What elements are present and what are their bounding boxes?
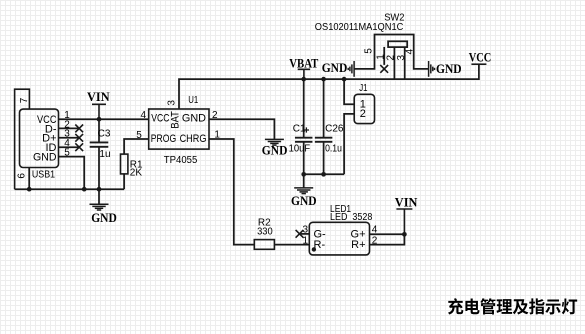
ground symbol below C1: [294, 188, 313, 194]
wire USB pin3 stub: [59, 137, 80, 139]
no-connect X on USB pin 4: [75, 143, 83, 151]
USB1 pin numbers 1-5: [64, 110, 70, 159]
power port VIN (right): [396, 209, 412, 234]
LED1 pin-1 marker dot: [312, 247, 316, 251]
ground symbol at U1 pin2: [265, 139, 284, 145]
svg-text:330: 330: [257, 227, 273, 238]
capacitor C3 1u: [98, 119, 100, 142]
ground symbol left of SW2 (pin 5 lug): [348, 61, 354, 77]
svg-text:5: 5: [136, 130, 142, 141]
svg-text:7: 7: [19, 97, 30, 103]
USB1 pin names: [33, 114, 57, 164]
wire J1 pin2 to bottom bus: [344, 114, 354, 174]
LED1 pin 3 stub: [300, 233, 310, 235]
svg-text:5: 5: [363, 48, 374, 54]
svg-text:U1: U1: [188, 95, 198, 106]
wire U1 pin1 CHRG down to R2: [209, 139, 254, 245]
svg-text:VCC: VCC: [151, 113, 169, 125]
svg-text:R+: R+: [351, 239, 365, 251]
no-connect X on SW2 pin 1: [380, 65, 388, 73]
connector USB1 body: [20, 109, 59, 167]
pin 6 wire: [28, 168, 30, 190]
svg-text:3: 3: [167, 100, 178, 106]
svg-text:2: 2: [360, 108, 366, 120]
svg-text:C26: C26: [325, 124, 344, 135]
svg-text:VCC: VCC: [469, 50, 492, 65]
op IC U1 TP4055 body: [149, 109, 209, 149]
LED LED1 body: [309, 222, 369, 255]
wire R2 to LED1 pin1: [274, 244, 309, 246]
svg-text:GND: GND: [322, 60, 348, 75]
wire C1 bus to ground: [303, 174, 305, 188]
power port VIN (left): [92, 104, 106, 119]
junction VIN/C3: [97, 117, 102, 122]
svg-text:VIN: VIN: [395, 195, 418, 210]
wire LED1 pin4 G+ to VIN: [370, 233, 405, 235]
wire C1/C26 bottom bus: [304, 173, 344, 175]
title text 充电管理及指示灯: [448, 298, 577, 314]
wire C3 to ground: [98, 189, 100, 204]
svg-text:BAT: BAT: [170, 111, 182, 129]
junction C26/bottom bus: [321, 172, 326, 177]
wire USB pin2 stub: [59, 127, 80, 129]
wire USB pin5 (GND) down to bus: [59, 157, 85, 190]
svg-text:CHRG: CHRG: [180, 133, 207, 145]
junction LED pins/VIN: [402, 232, 407, 237]
wire bus to J1 pin1: [344, 79, 354, 104]
svg-text:OS102011MA1QN1C: OS102011MA1QN1C: [315, 22, 404, 33]
power port VBAT: [298, 69, 310, 79]
wire USB pin4 stub: [59, 146, 80, 148]
svg-text:GND: GND: [262, 143, 288, 158]
wire U1 pin5 to R1: [124, 139, 149, 154]
junction VBAT/C1: [301, 77, 306, 82]
junction J1/bus: [342, 77, 347, 82]
wire U1 pin2 to ground: [209, 119, 274, 139]
wire USB pin1 to U1 pin4 (VIN net): [59, 118, 149, 120]
junction C1/ground: [301, 172, 306, 177]
no-connect X on USB pin 3: [75, 134, 83, 142]
SW2 pin 1 stub: [383, 47, 385, 65]
junction pin6/bus: [27, 187, 32, 192]
svg-text:1u: 1u: [99, 149, 110, 160]
svg-text:10uF: 10uF: [289, 144, 311, 155]
svg-text:GND: GND: [91, 210, 117, 225]
junction C3-GND/bus: [97, 187, 102, 192]
svg-text:GND: GND: [291, 193, 317, 208]
resistor R1 body: [121, 154, 128, 174]
SW2 pin 3 lead to bus: [404, 47, 406, 79]
svg-text:3: 3: [302, 224, 308, 235]
no-connect X on USB pin 2: [75, 125, 83, 133]
svg-text:4: 4: [404, 49, 415, 55]
svg-text:C3: C3: [98, 129, 111, 140]
svg-text:TP4055: TP4055: [164, 155, 198, 166]
SW2 pin 2 lead to bus: [393, 47, 395, 79]
svg-text:USB1: USB1: [32, 170, 56, 181]
svg-text:VIN: VIN: [87, 89, 110, 104]
ground symbol right of SW2 (pin 4 lug): [429, 61, 435, 77]
svg-text:1: 1: [302, 236, 308, 247]
resistor R2 body: [254, 240, 274, 250]
svg-text:2K: 2K: [130, 167, 143, 178]
capacitor C26 0.1u: [323, 79, 325, 138]
wire LED1 pin2 R+ to VIN: [370, 234, 405, 244]
svg-text:6: 6: [17, 173, 28, 179]
junction C26/bus: [321, 77, 326, 82]
no-connect X on LED1 pin 3: [296, 230, 304, 238]
wire SW2 pin5 lug bracket to pin4 lug: [354, 35, 429, 69]
svg-text:VBAT: VBAT: [289, 56, 318, 71]
svg-text:PROG: PROG: [151, 133, 176, 145]
junction pin5/bus: [82, 187, 87, 192]
svg-text:LED_3528: LED_3528: [330, 212, 373, 223]
svg-text:GND: GND: [33, 152, 57, 164]
svg-text:J1: J1: [359, 83, 368, 94]
SW2 slider knob: [388, 41, 407, 47]
wire U1 pin3 BAT up and across to VCC (VBAT bus): [179, 64, 479, 109]
connector USB1 shield bracket pins 7/6: [15, 89, 30, 189]
power port VCC: [471, 63, 486, 65]
svg-text:GND: GND: [436, 61, 462, 76]
svg-text:GND: GND: [182, 113, 206, 125]
connector J1 body: [354, 94, 374, 123]
ground symbol below USB/C3 bus: [90, 204, 109, 210]
wire R1 to bus: [123, 174, 125, 189]
svg-text:4: 4: [140, 110, 146, 121]
svg-text:C1: C1: [293, 124, 306, 135]
svg-text:0.1u: 0.1u: [325, 144, 342, 155]
capacitor C1 10uF (polarized): [303, 79, 305, 138]
wire bottom GND bus: [15, 188, 125, 190]
